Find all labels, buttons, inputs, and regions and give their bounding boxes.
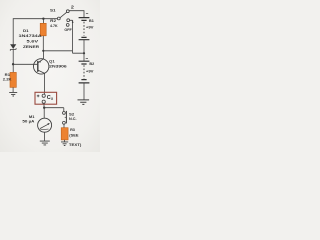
svg-text:1N4734A: 1N4734A: [19, 33, 42, 38]
transistor Q1 base bar: [37, 61, 39, 72]
svg-text:50 µA: 50 µA: [22, 118, 34, 123]
svg-text:ZENER: ZENER: [23, 44, 39, 49]
wire junction to B2 top: [83, 53, 85, 61]
ground below B2: [78, 100, 90, 105]
svg-text:R2: R2: [50, 18, 57, 23]
label + terminal: [37, 95, 40, 98]
wire B2 bottom to ground: [83, 83, 85, 100]
svg-text:TEXT): TEXT): [69, 142, 82, 147]
wire S2 to R3: [63, 124, 65, 128]
switch S1 contact 2: [66, 10, 69, 13]
wire base of Q1: [13, 63, 37, 65]
switch S1 contact 1: [67, 19, 70, 22]
svg-text:+9V: +9V: [86, 25, 94, 30]
node junction dot D1/R1/base: [12, 63, 14, 65]
resistor R2: [40, 23, 46, 36]
wire D1 cathode down to node: [12, 49, 14, 73]
junction dot R2/emitter: [42, 50, 44, 52]
junction dot meter node: [43, 107, 45, 109]
switch S2 bottom contact: [63, 121, 66, 124]
wire meter node to S2: [44, 108, 64, 112]
minus mark B1: [86, 12, 88, 14]
svg-text:R3: R3: [70, 127, 76, 132]
svg-text:B2: B2: [89, 61, 95, 66]
meter M1 circle: [38, 118, 52, 132]
wire R1 to ground: [12, 87, 14, 92]
battery B2: [79, 61, 90, 83]
wire R2 to emitter rail: [42, 36, 44, 51]
svg-text:2N3906: 2N3906: [49, 63, 67, 68]
resistor R3: [61, 128, 68, 140]
switch S1 blade: [60, 12, 67, 17]
wire B1 bottom to junction: [83, 40, 85, 54]
transistor Q1 emitter lead with arrow: [38, 59, 43, 63]
svg-text:OFF: OFF: [64, 27, 72, 32]
ground below R1: [9, 92, 17, 96]
transistor Q1 collector lead: [38, 70, 45, 73]
switch S2 top contact: [63, 112, 66, 115]
svg-text:(SEE: (SEE: [69, 133, 79, 138]
switch S2 actuator tick: [65, 116, 67, 118]
meter M1 needle: [40, 123, 50, 130]
switch S2 blade: [65, 111, 67, 124]
wire top rail from D1 up and right to S1 pole: [13, 19, 57, 45]
switch S1 contact OFF: [66, 24, 69, 27]
ground below M1: [40, 141, 50, 145]
wire rail to R2: [42, 19, 44, 24]
wire contact 2 to B1 top: [69, 11, 84, 17]
wire meter node to M1: [43, 108, 45, 119]
zener diode D1: [10, 44, 16, 50]
Cx terminal -: [42, 100, 45, 103]
wire R3 to ground: [64, 140, 66, 142]
battery B1: [79, 18, 90, 40]
svg-text:5.6V: 5.6V: [27, 39, 39, 44]
junction dot battery tap: [83, 52, 85, 54]
resistor R1: [10, 72, 16, 87]
svg-text:+9V: +9V: [86, 69, 94, 74]
wire collector down to Cx box: [44, 74, 46, 95]
svg-text:2.2K: 2.2K: [3, 77, 12, 82]
junction dot rail/R2: [42, 18, 44, 20]
wire M1 to ground: [44, 132, 46, 141]
wire Cx bottom to meter node: [43, 103, 45, 107]
svg-text:4.7K: 4.7K: [50, 23, 58, 28]
svg-text:N.C.: N.C.: [69, 116, 77, 121]
Cx test terminal box: [35, 92, 57, 104]
transistor Q1 circle: [34, 59, 49, 74]
svg-text:B1: B1: [89, 18, 95, 23]
minus mark B2: [86, 58, 88, 60]
wire contact 1 down to battery junction: [70, 20, 73, 51]
svg-text:S1: S1: [50, 7, 56, 12]
wire emitter up to rail: [43, 51, 45, 59]
svg-text:2: 2: [71, 4, 74, 10]
ground below R3: [61, 142, 68, 146]
Cx terminal +: [42, 94, 45, 97]
switch S1 pole contact: [57, 17, 60, 20]
wire emitter rail to batteries: [43, 51, 84, 53]
